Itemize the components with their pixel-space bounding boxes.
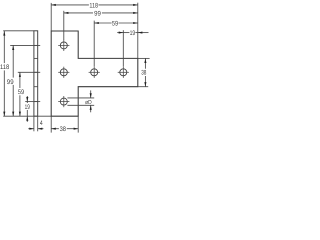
dimension texts — [0, 2, 147, 133]
hole H4 arm right — [120, 69, 127, 76]
arrows dim 118 top — [51, 4, 56, 6]
oD tangent bottom — [67, 104, 94, 106]
dim 19 left — [26, 96, 28, 103]
arrows dim 19 left (outside) — [26, 97, 28, 102]
svg-text:4: 4 — [40, 120, 43, 127]
extension lines — [3, 3, 149, 133]
svg-text:59: 59 — [18, 89, 25, 96]
arrows dim 59 left — [19, 72, 21, 77]
ext right edge up — [137, 3, 139, 59]
svg-text:19: 19 — [25, 104, 30, 111]
arrows dim 99 top — [64, 12, 69, 14]
ext bottom edge left — [3, 115, 51, 117]
dim 118 left — [3, 31, 5, 63]
arrowheads — [3, 4, 146, 130]
hole H3 arm middle — [91, 69, 98, 76]
dimension lines — [4, 5, 148, 129]
ext column down right — [77, 116, 79, 132]
dim 4 bottom — [28, 128, 34, 130]
dim 99 top — [64, 12, 93, 14]
dim 59 top — [94, 22, 111, 24]
arrows dim 38 right — [144, 58, 146, 63]
ext arm bottom right — [138, 86, 148, 88]
dim 38 bottom — [51, 128, 59, 130]
svg-text:99: 99 — [94, 10, 101, 17]
dim 118 top — [51, 4, 89, 6]
dim 38 right — [144, 58, 146, 68]
ext side view down left — [33, 116, 35, 131]
arrows dim 19 top (outside) — [119, 32, 124, 34]
ext hole row3 left — [25, 101, 40, 103]
arrows dim 38 bottom — [51, 128, 56, 130]
arrows dim oD (outside) — [90, 93, 92, 98]
svg-text:øD: øD — [85, 100, 92, 106]
ext hole row1 left — [10, 44, 40, 46]
arrows dim 118 left — [3, 31, 5, 36]
svg-text:118: 118 — [89, 2, 98, 9]
ext arm top right — [138, 57, 150, 59]
svg-text:59: 59 — [112, 20, 119, 27]
svg-text:38: 38 — [141, 70, 146, 77]
arrows dim 99 left — [12, 45, 14, 50]
ext column down left — [50, 116, 52, 132]
front view T-plate outline — [51, 31, 138, 116]
hole crosshairs — [58, 40, 129, 107]
svg-text:99: 99 — [7, 79, 14, 86]
hole H1 top — [60, 42, 127, 105]
ext hole row2 left — [18, 71, 40, 73]
oD tangent top — [67, 97, 94, 99]
ext hole col up — [63, 11, 65, 40]
dim 19 top — [117, 32, 123, 34]
svg-text:38: 38 — [60, 126, 67, 133]
dim 59 left — [19, 72, 21, 88]
svg-text:19: 19 — [130, 30, 136, 37]
hole H5 bottom — [60, 98, 67, 105]
ext hole3 up — [93, 21, 95, 67]
dim 99 left — [12, 45, 14, 77]
hole H2 middle-left — [60, 69, 67, 76]
arrows dim 59 top — [94, 22, 99, 24]
ext top edge left — [3, 30, 34, 32]
side view hole/edge projection lines — [34, 45, 38, 101]
ext hole4 up — [122, 30, 124, 66]
dim oD vertical tails — [90, 90, 92, 98]
ext side view down right — [37, 116, 39, 131]
arrows dim 4 bottom (outside) — [29, 128, 34, 130]
svg-text:118: 118 — [0, 64, 10, 71]
side view plate outline — [34, 31, 38, 116]
ext left edge up — [50, 3, 52, 31]
